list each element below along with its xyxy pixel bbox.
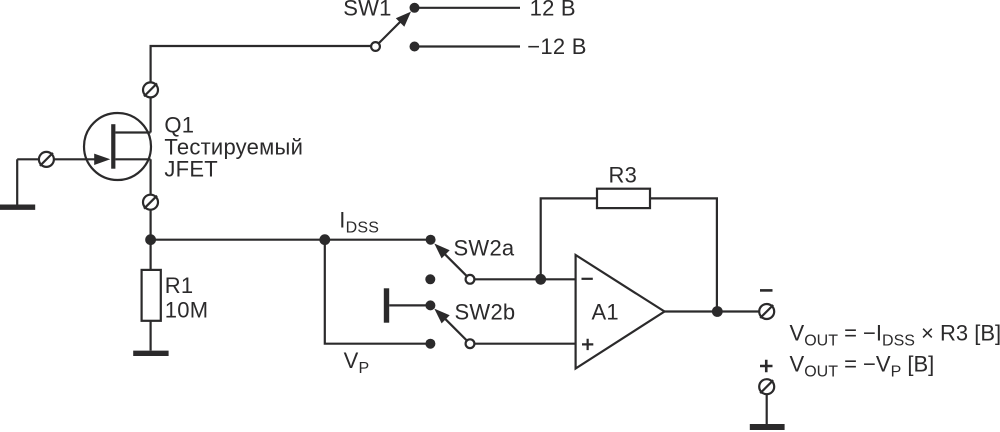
wire: [151, 239, 426, 241]
node junction: [535, 274, 546, 285]
op-amp A1: [576, 255, 665, 369]
resistor R1: [142, 270, 161, 321]
wire output: [665, 310, 760, 312]
node -12V contact: [410, 42, 420, 52]
terminal gate: [39, 152, 54, 167]
svg-text:12 В: 12 В: [530, 0, 576, 20]
ground: [133, 351, 168, 356]
node junction: [712, 306, 723, 317]
svg-text:SW1: SW1: [343, 0, 391, 21]
terminal drain: [143, 82, 158, 97]
minus polarity mark: [760, 289, 773, 292]
svg-text:VOUT = −IDSS × R3 [В]: VOUT = −IDSS × R3 [В]: [790, 320, 1000, 349]
wire: [150, 159, 152, 235]
svg-text:10M: 10M: [165, 298, 209, 323]
wire: [419, 45, 520, 47]
wire: [766, 394, 768, 424]
node junction: [319, 234, 330, 245]
svg-text:SW2b: SW2b: [455, 300, 516, 325]
terminal output: [759, 304, 774, 319]
svg-text:R1: R1: [165, 273, 194, 298]
svg-text:IDSS: IDSS: [339, 207, 379, 236]
svg-text:A1: A1: [592, 299, 619, 324]
wire: [325, 240, 426, 344]
resistor R3: [597, 189, 650, 208]
switch SW1: [371, 12, 411, 51]
transistor Q1: [84, 113, 151, 180]
svg-text:VP: VP: [344, 348, 370, 377]
terminal output ground side: [759, 379, 774, 394]
wire: [474, 343, 575, 345]
svg-text:−12 В: −12 В: [527, 34, 586, 59]
ground: [750, 424, 785, 430]
svg-text:VOUT = −VP [В]: VOUT = −VP [В]: [790, 352, 935, 381]
switch SW2b: [425, 300, 474, 348]
wire feedback: [541, 198, 597, 279]
wire: [151, 46, 371, 133]
node junction: [145, 234, 156, 245]
ground rotated: [387, 288, 427, 322]
ground: [0, 159, 35, 207]
terminal source: [143, 195, 158, 210]
switch SW2a: [425, 235, 474, 285]
svg-text:R3: R3: [609, 163, 638, 188]
plus polarity mark: [760, 360, 773, 372]
svg-text:JFET: JFET: [164, 157, 218, 182]
wire feedback right: [650, 198, 717, 311]
svg-text:SW2a: SW2a: [454, 235, 515, 260]
wire: [419, 7, 520, 9]
wire: [150, 321, 152, 351]
wire: [150, 240, 152, 270]
node 12V contact: [410, 3, 420, 13]
wire: [474, 278, 575, 280]
wire: [17, 158, 95, 160]
